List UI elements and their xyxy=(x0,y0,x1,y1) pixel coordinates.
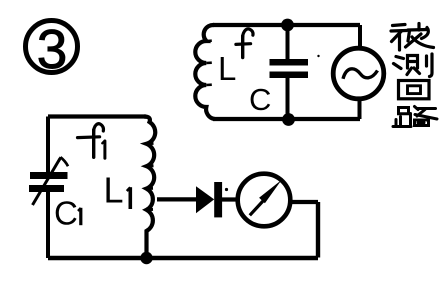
wire diode to meter xyxy=(222,197,239,201)
svg-text:L: L xyxy=(104,170,124,211)
wire top edge of detector loop xyxy=(48,114,146,118)
wire bottom edge of tank circuit xyxy=(213,117,360,121)
meter M circle xyxy=(238,174,291,227)
label f (hand-drawn script) xyxy=(236,29,253,58)
variable capacitor C1 arrow xyxy=(33,159,61,206)
AC source circle xyxy=(333,48,384,99)
diode D triangle xyxy=(196,186,214,213)
node junction dot on bottom wire xyxy=(140,252,152,264)
hanzi 被 xyxy=(391,24,434,51)
node junction dot top xyxy=(281,19,294,32)
diode D cathode bar xyxy=(214,182,222,217)
svg-text:C: C xyxy=(54,195,78,232)
wire right edge lower segment xyxy=(358,97,362,119)
hanzi 路 xyxy=(393,107,437,127)
wire right edge upper segment xyxy=(358,25,362,50)
hanzi 回 xyxy=(399,81,430,99)
wire coil tap to diode xyxy=(157,197,197,201)
meter needle arrow head xyxy=(259,180,281,203)
wire capacitor branch upper xyxy=(286,25,290,60)
variable capacitor C1 arrow head xyxy=(59,157,68,166)
wire left edge lower segment xyxy=(46,192,50,258)
inductor L1 coil xyxy=(144,117,155,263)
svg-text:C: C xyxy=(249,82,271,117)
inductor L cusp ticks xyxy=(206,41,212,85)
wire right edge of detector loop xyxy=(316,202,320,258)
capacitor C bottom plate xyxy=(270,72,309,79)
scan speck near diode xyxy=(225,188,228,191)
scan speck near capacitor xyxy=(317,55,319,57)
figure number 3 circle xyxy=(26,21,78,73)
svg-text:3: 3 xyxy=(37,18,68,80)
wire bottom edge of detector loop xyxy=(48,256,318,260)
AC source sine symbol xyxy=(343,69,378,79)
wire left edge upper segment xyxy=(46,117,50,174)
hanzi 测 xyxy=(394,54,433,77)
wire meter to right edge xyxy=(290,200,318,204)
label f1 (hand-drawn script) xyxy=(78,124,105,158)
variable capacitor C1 top plate xyxy=(30,172,68,179)
meter needle xyxy=(250,201,263,215)
variable capacitor C1 bottom plate xyxy=(29,185,64,192)
capacitor C top plate xyxy=(270,59,309,66)
node junction dot bottom xyxy=(282,113,295,126)
svg-text:L: L xyxy=(218,50,236,87)
inductor L1 cusp ticks xyxy=(146,143,154,209)
wire capacitor branch lower xyxy=(286,77,290,119)
inductor L (left side coil of tank) xyxy=(195,25,214,119)
wire top edge of tank circuit xyxy=(213,23,360,27)
